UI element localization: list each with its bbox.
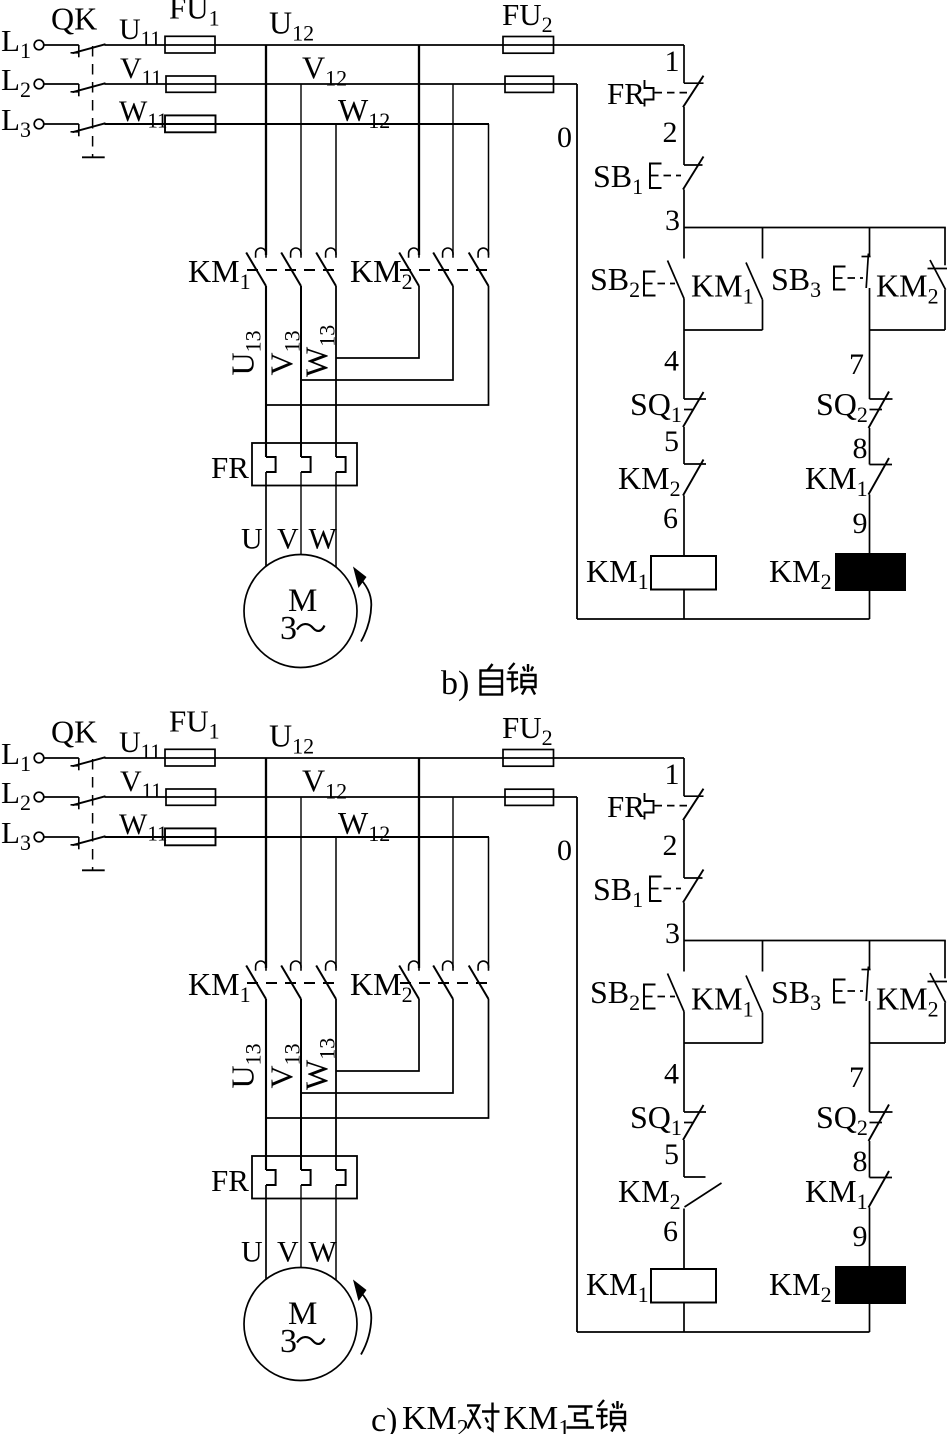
caption b) hanzi zi (self)	[481, 664, 503, 695]
fuse FU1 element W (b)	[165, 115, 216, 132]
node 3 bus wire (c)	[684, 940, 946, 942]
pushbutton SB1 NC contact (c)	[683, 870, 704, 903]
caption c) hanzi suo (lock)	[596, 1400, 625, 1432]
overload relay FR heater 3 (b)	[336, 457, 346, 472]
fuse FU1 element V (c)	[166, 789, 216, 805]
wire control bottom (b)	[577, 618, 870, 620]
wire KM2 coil to bottom (c)	[869, 1303, 871, 1332]
svg-text:FR: FR	[607, 789, 645, 824]
wire KM2 column 1 (c)	[418, 758, 420, 968]
contactor KM2 main contact 1 (c)	[399, 961, 419, 999]
svg-text:1: 1	[665, 45, 680, 78]
limit switch SQ2 NC contact (b)	[869, 392, 893, 429]
terminal circle L3 (b)	[34, 119, 44, 129]
wire KM2 out 1 (b)	[336, 286, 419, 358]
wire phase 3 main (b)	[105, 123, 490, 125]
wire SQ1 to KM2 NC (b)	[683, 427, 685, 464]
overload relay FR heater 2 (c)	[301, 1170, 311, 1185]
svg-text:W: W	[309, 1236, 338, 1269]
fuse FU1 element U (b)	[165, 36, 215, 53]
contactor KM1 aux NO contact (c)	[746, 941, 763, 1044]
limit switch SQ1 NC contact (c)	[683, 1105, 706, 1140]
pushbutton SB2 actuator (b)	[644, 272, 675, 296]
motor 3-phase label (b)	[280, 610, 325, 647]
limit switch SQ1 NC contact (b)	[683, 392, 706, 427]
svg-text:9: 9	[853, 507, 868, 540]
wire KM2 column 1 (b)	[418, 45, 420, 255]
pushbutton SB3 actuator (c)	[834, 980, 863, 1003]
wire KM1 coil to bottom (b)	[683, 590, 685, 620]
pushbutton SB2 NO contact blade (b)	[668, 261, 685, 299]
svg-text:2: 2	[663, 829, 678, 862]
switch QK pole 2 (b)	[71, 83, 106, 96]
wire KM2 out 1 (c)	[336, 999, 419, 1071]
wire KM2 aux bottom link (b)	[870, 329, 946, 331]
caption c) hanzi hu (mutual)	[567, 1407, 595, 1428]
wire U to motor (b)	[265, 472, 267, 567]
pushbutton SB1 actuator (c)	[650, 877, 681, 902]
terminal circle L3 (c)	[34, 832, 44, 842]
motor 3-phase label (c)	[280, 1323, 325, 1360]
wire V to motor (b)	[300, 472, 302, 555]
caption b) hanzi suo (lock)	[507, 663, 536, 695]
wire SQ2 to KM1 NC (b)	[869, 428, 871, 465]
switch QK linkage dashed (b)	[82, 46, 105, 157]
coil KM2 filled (b)	[836, 554, 905, 590]
fuse FU1 element U (c)	[165, 749, 215, 766]
svg-text:U: U	[241, 523, 263, 556]
wire V to motor (c)	[300, 1185, 302, 1268]
wire L3 to QK (b)	[44, 123, 79, 125]
svg-text:0: 0	[557, 834, 572, 867]
overload relay FR heater 1 (b)	[266, 457, 276, 472]
motor M circle (c)	[244, 1268, 357, 1381]
terminal circle L1 (b)	[34, 40, 44, 50]
svg-text:6: 6	[663, 1215, 678, 1248]
wire V13 column (b)	[300, 286, 302, 457]
wire KM2 column 3 (c)	[488, 837, 490, 968]
coil KM1 (b)	[651, 556, 716, 590]
switch QK pole 1 (b)	[71, 44, 106, 57]
svg-text:FR: FR	[211, 1163, 249, 1198]
wire U13 column (b)	[265, 286, 267, 457]
wire W12 column (b)	[335, 124, 337, 255]
interlock contact KM1 NC (c)	[869, 1171, 893, 1208]
fuse FU1 element W (c)	[165, 828, 216, 845]
wire KM2 column 2 (c)	[452, 797, 454, 968]
pushbutton SB3 NO contact (c)	[862, 967, 871, 1002]
svg-text:V: V	[277, 523, 299, 556]
contactor KM1 main contact 2 (c)	[281, 961, 301, 999]
wire 0 return (b)	[576, 84, 578, 619]
wire node3 to SB3 (c)	[869, 941, 871, 970]
switch QK pole 2 (c)	[71, 796, 106, 809]
relay contact FR NC (b)	[683, 76, 704, 108]
svg-text:QK: QK	[51, 714, 97, 750]
svg-text:9: 9	[853, 1220, 868, 1253]
pushbutton SB2 NO contact blade (c)	[668, 974, 685, 1012]
svg-text:3: 3	[665, 204, 680, 237]
coil KM1 (c)	[651, 1269, 716, 1303]
wire KM1 aux bottom link (c)	[684, 1042, 763, 1044]
svg-text:c): c)	[371, 1402, 397, 1434]
svg-text:1: 1	[665, 758, 680, 791]
wire W to motor (b)	[335, 472, 337, 568]
wire KM2 out 2 (b)	[301, 286, 453, 380]
wire SB3 to SQ2 (b)	[869, 288, 871, 399]
contactor KM2 main contact 2 (c)	[433, 961, 453, 999]
contactor KM2 main contact 3 (c)	[469, 961, 489, 999]
svg-text:V: V	[277, 1236, 299, 1269]
svg-text:FR: FR	[607, 76, 645, 111]
wire W13 column (c)	[335, 999, 337, 1170]
interlock contact KM2 NC (b)	[683, 460, 706, 496]
wire KM1 aux bottom link (b)	[684, 329, 763, 331]
fuse FU2 element 1 (b)	[503, 37, 554, 54]
wire SB3 to SQ2 (c)	[869, 1001, 871, 1112]
wire node 1-2 (b)	[683, 107, 685, 165]
wire node 1-2 (c)	[683, 820, 685, 878]
limit switch SQ2 NC contact (c)	[869, 1105, 893, 1142]
contactor KM2 main contact 3 (b)	[469, 248, 489, 286]
svg-text:3: 3	[280, 610, 297, 647]
wire L3 to QK (c)	[44, 836, 79, 838]
wire W12 column (c)	[335, 837, 337, 968]
overload relay FR heater 1 (c)	[266, 1170, 276, 1185]
contactor KM1 aux NO contact (b)	[746, 228, 763, 331]
wire node 2-3 (b)	[683, 190, 685, 228]
pushbutton SB1 actuator (b)	[650, 164, 681, 189]
fuse FU2 element 1 (c)	[503, 750, 554, 767]
wire V12 column (b)	[300, 84, 302, 255]
overload relay FR heater 2 (b)	[301, 457, 311, 472]
pushbutton SB2 actuator (c)	[644, 985, 675, 1009]
wire node 2-3 (c)	[683, 903, 685, 941]
pushbutton SB3 NO contact (b)	[862, 254, 871, 289]
svg-text:W: W	[309, 523, 338, 556]
contactor KM2 main contact 2 (b)	[433, 248, 453, 286]
svg-text:6: 6	[663, 502, 678, 535]
wire node3 to SB2 (c)	[683, 941, 685, 972]
contactor KM1 main contact 1 (c)	[246, 961, 266, 999]
wire SQ1 to KM2 NC (c)	[683, 1140, 685, 1177]
KM1 main linkage dashed (c)	[247, 982, 338, 984]
svg-text:7: 7	[849, 348, 864, 381]
terminal circle L1 (c)	[34, 753, 44, 763]
fuse FU2 element 2 (b)	[505, 76, 554, 92]
fuse FU2 element 2 (c)	[505, 789, 554, 805]
wire KM2 out 3 (c)	[266, 999, 489, 1118]
wire L1 to QK (b)	[44, 44, 79, 46]
wire phase 2 main (b)	[105, 83, 578, 85]
contactor KM2 aux NO contact (c)	[928, 941, 947, 1044]
KM2 main linkage dashed (b)	[400, 269, 490, 271]
wire KM2 NC to coil (c)	[683, 1209, 685, 1270]
node 3 bus wire (b)	[684, 227, 946, 229]
wire KM2 column 3 (b)	[488, 124, 490, 255]
wire U to motor (c)	[265, 1185, 267, 1280]
svg-text:7: 7	[849, 1061, 864, 1094]
wire phase 1 main (b)	[105, 44, 685, 46]
terminal circle L2 (c)	[34, 792, 44, 802]
wire SB2 to SQ1 (b)	[683, 299, 685, 400]
wire KM2 aux bottom link (c)	[870, 1042, 946, 1044]
contactor KM1 main contact 3 (b)	[316, 248, 336, 286]
overload relay FR heater 3 (c)	[336, 1170, 346, 1185]
contactor KM1 main contact 3 (c)	[316, 961, 336, 999]
wire control feed corner (b)	[683, 45, 685, 83]
wire U13 column (c)	[265, 999, 267, 1170]
contactor KM2 aux NO contact (b)	[928, 228, 947, 331]
relay FR actuator symbol (c)	[645, 793, 688, 820]
svg-text:5: 5	[664, 425, 679, 458]
wire control bottom (c)	[577, 1331, 870, 1333]
wire KM2 coil to bottom (b)	[869, 590, 871, 619]
wire node3 to SB2 (b)	[683, 228, 685, 259]
pushbutton SB1 NC contact (b)	[683, 157, 704, 190]
fuse FU1 element V (b)	[166, 76, 216, 92]
KM1 main linkage dashed (b)	[247, 269, 338, 271]
KM2 main linkage dashed (c)	[400, 982, 490, 984]
caption c) hanzi dui (toward)	[467, 1403, 500, 1431]
pushbutton SB3 actuator (b)	[834, 267, 863, 290]
wire V12 column (c)	[300, 797, 302, 968]
switch QK linkage dashed (c)	[82, 759, 105, 870]
wire L1 to QK (c)	[44, 757, 79, 759]
svg-text:5: 5	[664, 1138, 679, 1171]
svg-text:3: 3	[665, 917, 680, 950]
svg-text:U: U	[241, 1236, 263, 1269]
wire phase 2 main (c)	[105, 796, 578, 798]
wire KM1 coil to bottom (c)	[683, 1303, 685, 1333]
svg-text:0: 0	[557, 121, 572, 154]
wire KM1 NC to coil (b)	[869, 495, 871, 555]
contactor KM1 main contact 1 (b)	[246, 248, 266, 286]
svg-text:3: 3	[280, 1323, 297, 1360]
svg-text:4: 4	[664, 1058, 679, 1091]
switch QK pole 1 (c)	[71, 757, 106, 770]
wire L2 to QK (b)	[44, 83, 79, 85]
contactor KM1 main contact 2 (b)	[281, 248, 301, 286]
wire V13 column (c)	[300, 999, 302, 1170]
interlock contact KM1 NC (b)	[869, 458, 893, 495]
coil KM2 filled (c)	[836, 1267, 905, 1303]
wire SQ2 to KM1 NC (c)	[869, 1141, 871, 1178]
wire control feed corner (c)	[683, 758, 685, 796]
motor rotation arrow (b)	[353, 567, 371, 642]
relay contact FR NC (c)	[683, 789, 704, 821]
wire KM2 NC to coil (b)	[683, 496, 685, 557]
wire phase 3 main (c)	[105, 836, 490, 838]
wire W13 column (b)	[335, 286, 337, 457]
switch QK pole 3 (b)	[71, 123, 106, 136]
svg-text:QK: QK	[51, 1, 97, 37]
svg-text:2: 2	[663, 116, 678, 149]
motor M circle (b)	[244, 555, 357, 668]
wire KM1 NC to coil (c)	[869, 1208, 871, 1268]
overload relay FR box (c)	[252, 1156, 357, 1199]
interlock contact KM2 open (c)	[684, 1177, 722, 1207]
wire W to motor (c)	[335, 1185, 337, 1281]
svg-text:4: 4	[664, 345, 679, 378]
svg-text:FR: FR	[211, 450, 249, 485]
motor rotation arrow (c)	[353, 1280, 371, 1355]
wire 0 return (c)	[576, 797, 578, 1332]
wire L2 to QK (c)	[44, 796, 79, 798]
wire KM2 out 2 (c)	[301, 999, 453, 1093]
wire KM2 column 2 (b)	[452, 84, 454, 255]
svg-text:b): b)	[441, 665, 469, 702]
wire U12 column (c)	[265, 758, 267, 968]
overload relay FR box (b)	[252, 443, 357, 486]
wire SB2 to SQ1 (c)	[683, 1012, 685, 1113]
switch QK pole 3 (c)	[71, 836, 106, 849]
wire KM2 out 3 (b)	[266, 286, 489, 405]
terminal circle L2 (b)	[34, 79, 44, 89]
wire phase 1 main (c)	[105, 757, 685, 759]
wire U12 column (b)	[265, 45, 267, 255]
wire node3 to SB3 (b)	[869, 228, 871, 257]
relay FR actuator symbol (b)	[645, 80, 688, 107]
contactor KM2 main contact 1 (b)	[399, 248, 419, 286]
